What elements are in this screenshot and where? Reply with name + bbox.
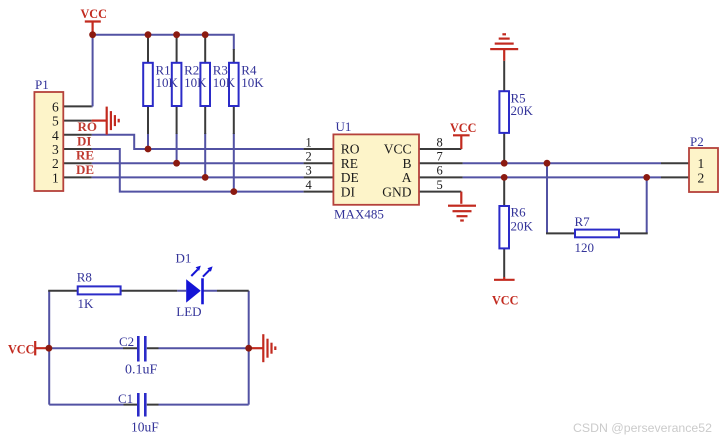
svg-text:10K: 10K — [156, 75, 179, 90]
svg-text:1: 1 — [306, 135, 312, 149]
svg-text:B: B — [402, 156, 411, 171]
svg-text:LED: LED — [176, 304, 201, 319]
svg-text:R8: R8 — [77, 270, 92, 285]
svg-text:VCC: VCC — [450, 121, 476, 135]
svg-text:4: 4 — [52, 128, 59, 143]
svg-text:8: 8 — [437, 135, 443, 149]
svg-text:0.1uF: 0.1uF — [125, 363, 158, 378]
svg-text:RE: RE — [76, 148, 94, 163]
svg-text:20K: 20K — [511, 219, 534, 234]
svg-text:D1: D1 — [176, 251, 192, 266]
svg-text:DI: DI — [341, 184, 356, 199]
svg-text:2: 2 — [52, 156, 59, 171]
svg-text:20K: 20K — [511, 103, 534, 118]
svg-text:P2: P2 — [690, 134, 704, 149]
svg-text:10K: 10K — [184, 75, 207, 90]
svg-text:6: 6 — [52, 99, 59, 114]
svg-text:10uF: 10uF — [131, 419, 159, 434]
svg-text:10K: 10K — [241, 75, 264, 90]
svg-text:6: 6 — [437, 164, 443, 178]
svg-text:RO: RO — [78, 119, 98, 134]
svg-text:1K: 1K — [78, 296, 95, 311]
svg-text:CSDN @perseverance52: CSDN @perseverance52 — [573, 421, 712, 435]
svg-text:1: 1 — [698, 156, 705, 171]
svg-text:R7: R7 — [575, 214, 591, 229]
svg-text:VCC: VCC — [492, 294, 518, 308]
svg-text:5: 5 — [52, 114, 59, 129]
svg-text:VCC: VCC — [81, 7, 107, 21]
svg-text:10K: 10K — [213, 75, 236, 90]
svg-text:P1: P1 — [35, 77, 49, 92]
svg-text:7: 7 — [437, 150, 443, 164]
svg-text:U1: U1 — [336, 119, 352, 134]
svg-text:RE: RE — [341, 156, 358, 171]
svg-text:5: 5 — [437, 178, 443, 192]
svg-text:C1: C1 — [118, 391, 133, 406]
svg-text:DE: DE — [76, 162, 94, 177]
svg-text:2: 2 — [698, 170, 705, 185]
svg-text:3: 3 — [306, 164, 312, 178]
svg-text:R6: R6 — [511, 205, 527, 220]
svg-text:RO: RO — [341, 142, 360, 157]
svg-text:3: 3 — [52, 142, 59, 157]
svg-text:C2: C2 — [119, 334, 134, 349]
svg-text:DI: DI — [77, 133, 91, 148]
svg-text:MAX485: MAX485 — [334, 207, 384, 222]
svg-text:A: A — [402, 170, 412, 185]
svg-text:VCC: VCC — [384, 142, 412, 157]
svg-text:1: 1 — [52, 170, 59, 185]
svg-text:120: 120 — [575, 240, 595, 255]
svg-text:GND: GND — [382, 184, 411, 199]
svg-text:DE: DE — [341, 170, 359, 185]
svg-text:4: 4 — [306, 178, 313, 192]
svg-text:VCC: VCC — [8, 343, 34, 357]
svg-text:2: 2 — [306, 150, 312, 164]
